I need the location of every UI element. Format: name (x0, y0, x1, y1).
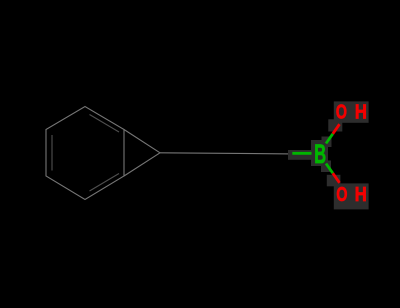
svg-text:H: H (355, 100, 367, 123)
wire ring to chain vertex lower (124, 153, 160, 176)
bond B-OH bottom red half (333, 173, 340, 183)
aromatic inner bond upper-right (90, 115, 120, 133)
label mask box B (311, 140, 328, 166)
bond B-OH bottom green half (326, 164, 333, 174)
wire ring to chain vertex upper (124, 130, 160, 153)
label mask tab B lower-right (321, 161, 331, 173)
aromatic inner bond left (51, 135, 53, 171)
bond C-B green half (292, 152, 311, 155)
wire chain to boron (160, 153, 292, 154)
label mask tab B upper-right (322, 137, 332, 148)
svg-text:B: B (314, 139, 326, 169)
svg-text:O: O (336, 183, 347, 206)
aromatic inner bond lower-right (90, 174, 120, 192)
benzene ring (46, 107, 124, 200)
bond B-OH top green half (326, 134, 333, 144)
label mask tab B left (288, 150, 312, 160)
svg-text:O: O (336, 100, 347, 123)
bond B-OH top red half (333, 124, 340, 134)
label mask box OH top (334, 101, 369, 122)
label mask tab OH top (328, 119, 342, 131)
svg-text:H: H (355, 183, 367, 206)
label mask box OH bottom (334, 183, 369, 209)
label mask tab OH bottom (327, 175, 341, 187)
